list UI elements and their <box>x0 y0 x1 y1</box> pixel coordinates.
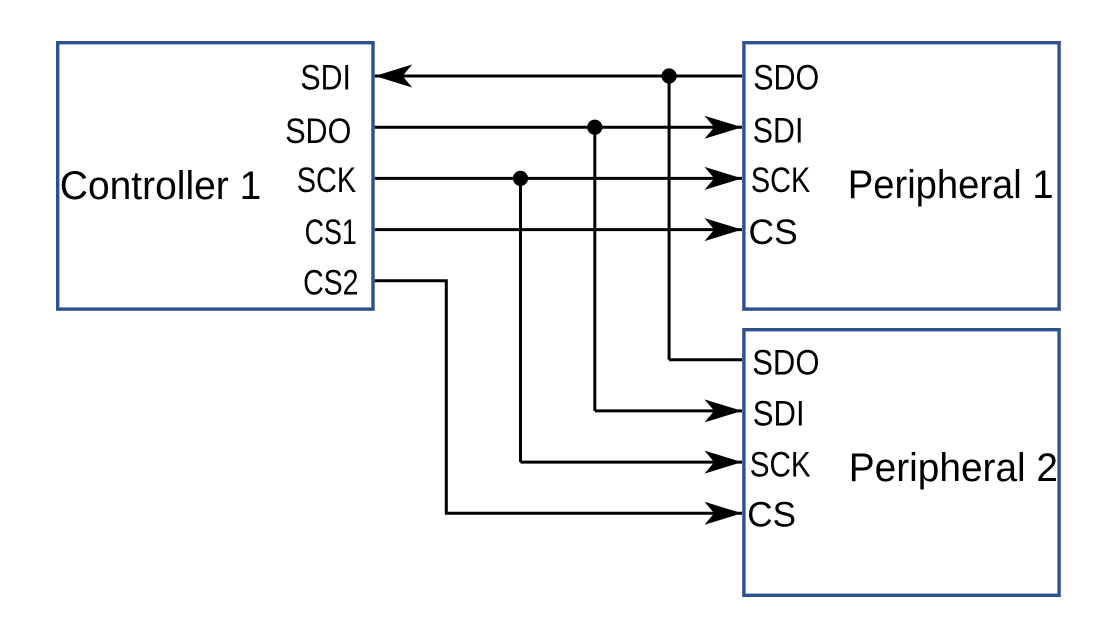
svg-text:Peripheral 2: Peripheral 2 <box>849 446 1058 490</box>
svg-text:Controller 1: Controller 1 <box>60 164 261 208</box>
svg-text:SDO: SDO <box>753 58 819 97</box>
svg-text:SCK: SCK <box>751 161 810 200</box>
svg-text:CS: CS <box>749 213 798 252</box>
svg-text:SDI: SDI <box>753 394 805 433</box>
svg-text:SCK: SCK <box>297 161 356 200</box>
svg-text:SDO: SDO <box>285 112 351 151</box>
svg-text:CS: CS <box>747 495 796 534</box>
svg-text:CS1: CS1 <box>305 213 357 252</box>
svg-text:SDI: SDI <box>300 59 351 98</box>
svg-text:CS2: CS2 <box>303 264 358 303</box>
svg-text:SCK: SCK <box>750 445 811 484</box>
svg-text:Peripheral 1: Peripheral 1 <box>848 163 1054 207</box>
svg-text:SDO: SDO <box>752 343 819 382</box>
svg-text:SDI: SDI <box>753 111 804 150</box>
